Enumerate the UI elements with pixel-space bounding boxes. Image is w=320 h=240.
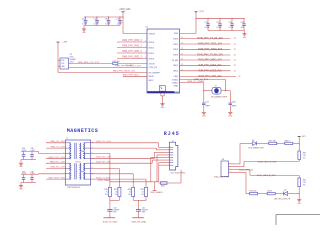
svg-text:RJH_PHY_LED1_3V3: RJH_PHY_LED1_3V3 xyxy=(199,65,223,67)
svg-text:RJ45_TX+_3V3: RJ45_TX+_3V3 xyxy=(96,141,112,143)
wire branch B segment xyxy=(258,193,268,195)
wire CT route xyxy=(91,178,146,180)
svg-text:LED GREEN LPR: LED GREEN LPR xyxy=(249,147,265,149)
svg-text:U2: U2 xyxy=(146,27,148,29)
wire TX secondary CT drop xyxy=(91,152,110,154)
ground (C38) xyxy=(229,108,231,113)
transformer T2 body xyxy=(65,140,90,185)
svg-text:MAGNETICS: MAGNETICS xyxy=(67,128,99,134)
wire RJ45 pin5 stub xyxy=(151,157,162,159)
svg-text:RMII_PHY_RXD_1: RMII_PHY_RXD_1 xyxy=(122,46,142,48)
svg-text:C31: C31 xyxy=(93,19,96,21)
svg-text:VDD: VDD xyxy=(174,33,179,35)
svg-text:XTAL2: XTAL2 xyxy=(172,78,179,81)
svg-text:+3V3_LAN: +3V3_LAN xyxy=(119,8,131,11)
svg-text:0.1UF: 0.1UF xyxy=(22,173,26,175)
wire branch B to ground xyxy=(288,193,300,195)
svg-text:RJH_PHY_LED2_3V3: RJH_PHY_LED2_3V3 xyxy=(199,71,223,73)
wire net RJ45_PHY_MDC_3V3 xyxy=(180,59,231,61)
svg-text:XTLIN: XTLIN xyxy=(149,63,155,65)
wire RX winding drop xyxy=(91,168,120,170)
wire RJ45 pin4 termination xyxy=(157,154,161,156)
wire center tap 2 to caps xyxy=(39,173,66,175)
svg-text:RMII_TX+_3V3: RMII_TX+_3V3 xyxy=(50,141,65,143)
wire RJ45_RX- route xyxy=(91,162,153,164)
ground (C37) xyxy=(203,108,205,113)
svg-text:D4: D4 xyxy=(284,190,286,192)
svg-text:RJ45: RJ45 xyxy=(164,131,180,137)
resistor R36 75 ohm xyxy=(108,187,111,196)
wire branch B segment xyxy=(275,193,283,195)
svg-text:FB2 600: FB2 600 xyxy=(113,61,120,63)
svg-text:R31 330: R31 330 xyxy=(269,140,276,142)
svg-text:LED2: LED2 xyxy=(173,71,179,73)
wire VDDIO feed from rail to U2 xyxy=(122,17,124,34)
resistor RBIAS box inside U2 xyxy=(159,86,165,92)
svg-text:R32 330: R32 330 xyxy=(250,191,257,193)
wire net RMII_TX+_3V3 xyxy=(46,142,65,144)
svg-text:C33: C33 xyxy=(116,19,119,21)
wire crystal right segment xyxy=(222,90,230,92)
svg-text:RMII_RX+_3V3: RMII_RX+_3V3 xyxy=(50,161,65,163)
svg-text:RJ45_PHY_TXD1_3V3: RJ45_PHY_TXD1_3V3 xyxy=(198,44,223,46)
wire XTAL2 to crystal xyxy=(180,79,226,81)
wire net RMII_RXCT_3V3 xyxy=(46,178,65,180)
resistor R38 75 ohm xyxy=(132,187,135,196)
title block frame corner xyxy=(276,214,320,216)
svg-text:RJ45_RX+_3V3: RJ45_RX+_3V3 xyxy=(96,157,112,159)
svg-text:C34: C34 xyxy=(22,148,25,150)
svg-text:C32: C32 xyxy=(105,19,108,21)
ground (cap bank 1) xyxy=(83,26,85,30)
shield resistor network xyxy=(159,182,182,184)
svg-text:RX_ER/RPT: RX_ER/RPT xyxy=(149,72,161,74)
svg-text:RJ45_PHY_TXD2_3V3: RJ45_PHY_TXD2_3V3 xyxy=(198,49,223,51)
svg-text:C37: C37 xyxy=(205,102,208,104)
LED pin stub 9 xyxy=(229,163,233,165)
svg-text:RXD2: RXD2 xyxy=(149,53,155,55)
capacitor C40 (TX term) xyxy=(109,200,111,207)
wire center tap 1 to caps xyxy=(39,152,66,154)
svg-text:J2B: J2B xyxy=(222,159,225,161)
svg-text:RJ45_LED_PINS: RJ45_LED_PINS xyxy=(214,177,229,179)
svg-text:C35: C35 xyxy=(30,148,33,150)
svg-text:RJ45_SHIELD: RJ45_SHIELD xyxy=(150,192,163,194)
svg-text:C24: C24 xyxy=(240,22,243,24)
U2 ground pins below xyxy=(160,93,162,96)
connector J2 pin stubs xyxy=(161,146,169,148)
svg-text:5%: 5% xyxy=(105,194,108,196)
svg-text:RMII_TXCT_3V3: RMII_TXCT_3V3 xyxy=(49,157,66,159)
LED pin stub 10 xyxy=(229,166,233,168)
wire R41 to branch B xyxy=(298,187,300,194)
svg-text:J2: J2 xyxy=(172,140,174,142)
wire net RJH_PHY_LED2_3V3 xyxy=(180,70,231,72)
resistor R35 270 (pullup) xyxy=(298,151,301,159)
ground (CT caps 2) xyxy=(20,183,22,186)
wire RJ45_TX+ route xyxy=(91,142,159,144)
svg-text:3V3: 3V3 xyxy=(302,136,305,138)
wire branch A to +3V3 rail xyxy=(293,142,299,144)
svg-text:RJ45_PHY_MDC_3V3: RJ45_PHY_MDC_3V3 xyxy=(198,60,222,62)
svg-text:5%: 5% xyxy=(303,185,306,187)
wire LED1 cathode route xyxy=(232,166,244,168)
svg-text:RJ45_PHY_nINT_3V3: RJ45_PHY_nINT_3V3 xyxy=(199,76,223,78)
wire branch A segment xyxy=(277,142,285,144)
IC U2 LAN8720A ethernet PHY body xyxy=(147,29,180,93)
wire LED2 anode route xyxy=(232,169,250,171)
wire shield flag drop xyxy=(154,182,156,191)
svg-text:C30: C30 xyxy=(82,19,85,21)
svg-text:MDIO: MDIO xyxy=(149,76,155,78)
svg-text:MDC: MDC xyxy=(149,80,154,82)
svg-text:0.1UF: 0.1UF xyxy=(30,150,34,152)
oscillator X2 box xyxy=(60,58,69,69)
wire bottom rail (CT caps 2) xyxy=(21,182,36,184)
capacitor C30 xyxy=(85,17,87,21)
capacitor C39 xyxy=(31,175,33,178)
ground (cap bank 2) xyxy=(244,31,246,34)
wire net RMII_PHY_RXD_2 xyxy=(117,52,147,54)
svg-text:5%: 5% xyxy=(141,194,144,196)
wire pair2 resistor bottoms xyxy=(132,197,134,201)
resistor R32 330 xyxy=(250,192,258,194)
svg-text:RJ45_PHY_TX_EN_3V3: RJ45_PHY_TX_EN_3V3 xyxy=(197,55,223,57)
svg-text:GND: GND xyxy=(174,85,179,87)
wire LED2 cathode route xyxy=(232,171,246,173)
resistor R33 0 ohm xyxy=(285,142,293,144)
svg-text:GCT RJ45 8P8C: GCT RJ45 8P8C xyxy=(170,173,186,175)
capacitor C36 xyxy=(23,175,25,178)
wire power stem 2 xyxy=(195,12,197,33)
wire net RJ45_PHY_TXD1_3V3 xyxy=(180,43,231,45)
wire net RMII_TX-_3V3 xyxy=(46,147,65,149)
svg-text:RMII_PHY_MDC: RMII_PHY_MDC xyxy=(123,75,140,77)
svg-text:RMII_PHY_RXD_2: RMII_PHY_RXD_2 xyxy=(122,51,142,53)
svg-text:OUT: OUT xyxy=(61,63,64,65)
wire net RMII_PHY_RXD_1 xyxy=(117,47,147,49)
wire rail to R35 xyxy=(298,143,300,151)
svg-text:TX_EN: TX_EN xyxy=(171,60,178,62)
svg-text:25.000MHZ 18PF: 25.000MHZ 18PF xyxy=(211,96,228,98)
wire termination bus xyxy=(110,181,159,183)
wire RJ45 pin7/8 termination xyxy=(159,162,162,164)
svg-text:C36: C36 xyxy=(22,171,25,173)
svg-text:Y2: Y2 xyxy=(215,85,217,87)
svg-text:C38: C38 xyxy=(232,102,235,104)
wire crystal left segment xyxy=(204,90,211,92)
svg-text:TXD3: TXD3 xyxy=(173,55,179,57)
wire net RMII_PHY_RXD_0 xyxy=(117,41,147,43)
transformer windings (lower channel) xyxy=(70,163,71,171)
wire net RMII_PHY_RXD_3 xyxy=(117,58,147,60)
resistor R37 75 ohm xyxy=(118,187,121,196)
capacitor C23 xyxy=(231,19,233,24)
svg-text:VDDIO: VDDIO xyxy=(149,33,156,35)
transformer windings (upper channel) xyxy=(70,143,71,151)
resistor R41 270 xyxy=(298,178,301,187)
svg-text:RJ45_PHY_TX_D0_3V3: RJ45_PHY_TX_D0_3V3 xyxy=(197,38,223,40)
U2 part number band xyxy=(147,91,174,93)
wire bottom rail of cap bank 1 xyxy=(84,25,120,27)
wire oscillator output to ferrite bead xyxy=(69,63,113,65)
svg-text:+1V2: +1V2 xyxy=(199,11,205,13)
wire net RJ45_PHY_TXD2_3V3 xyxy=(180,48,231,50)
svg-text:R33 0: R33 0 xyxy=(285,140,290,142)
svg-text:C22: C22 xyxy=(216,22,219,24)
svg-text:RXD0: RXD0 xyxy=(149,42,155,44)
connector J2B LED pins box xyxy=(221,161,229,177)
capacitor C24 xyxy=(243,19,245,24)
wire shield to connector xyxy=(180,170,182,183)
svg-text:TXD2: TXD2 xyxy=(173,49,179,51)
LED pin stub 12 xyxy=(229,171,233,173)
wire bottom rail of cap bank 2 xyxy=(208,30,245,32)
wire VDD pin to cap bank 2 xyxy=(180,32,196,34)
wire RJ45_TX- route xyxy=(91,147,157,149)
svg-text:XTAL1: XTAL1 xyxy=(172,81,179,84)
svg-text:5%: 5% xyxy=(128,194,131,196)
svg-text:C23: C23 xyxy=(228,22,231,24)
wire net RJ45_PHY_nINT xyxy=(180,75,236,77)
wire power stem to rail xyxy=(122,12,124,17)
capacitor C37 (crystal left) xyxy=(203,91,205,101)
capacitor C38 (crystal right) xyxy=(229,91,231,101)
svg-text:RMII_RXCT_3V3: RMII_RXCT_3V3 xyxy=(48,177,65,179)
wire net RMII_CRS_DV xyxy=(69,66,148,68)
wire net RMII_RX-_3V3 xyxy=(46,168,65,170)
svg-text:0.1UF: 0.1UF xyxy=(22,150,26,152)
svg-text:RXD3: RXD3 xyxy=(149,58,155,60)
svg-text:TXD1: TXD1 xyxy=(173,44,179,46)
wire LED2_A to R41 xyxy=(298,175,300,178)
svg-text:C21: C21 xyxy=(204,22,207,24)
capacitor C31 xyxy=(96,17,98,21)
power flag +3V3_LAN (LED) xyxy=(297,136,301,137)
svg-text:LED1: LED1 xyxy=(173,65,179,67)
svg-text:CRS_DV: CRS_DV xyxy=(149,67,158,69)
svg-text:RMII_PHY_CRS_DV_3V3: RMII_PHY_CRS_DV_3V3 xyxy=(115,66,141,68)
LED pin stub 11 xyxy=(229,169,233,171)
svg-text:RJ45_LED1_K_3V3: RJ45_LED1_K_3V3 xyxy=(258,161,277,163)
wire LED1 anode route xyxy=(232,163,240,165)
svg-text:RJ45_LED2_A_3V3: RJ45_LED2_A_3V3 xyxy=(257,174,276,177)
svg-text:C39: C39 xyxy=(30,171,33,173)
svg-text:R40 0: R40 0 xyxy=(161,186,165,188)
power flag +3V3_LAN (oscillator) xyxy=(56,42,60,43)
svg-text:RXD1: RXD1 xyxy=(149,47,155,49)
svg-text:LED YELLOW LPR: LED YELLOW LPR xyxy=(274,198,291,200)
svg-text:TXD0: TXD0 xyxy=(173,38,179,40)
capacitor C34 xyxy=(23,151,25,154)
resistor R31 330 xyxy=(269,142,277,144)
ground (CT caps 1) xyxy=(20,160,22,164)
svg-text:GST5009M LF: GST5009M LF xyxy=(67,187,81,189)
svg-text:RJ45_TX_GND: RJ45_TX_GND xyxy=(103,222,118,224)
wire RX secondary CT drop xyxy=(91,173,134,175)
connector J2 RJ45 body xyxy=(170,142,178,170)
resistor R34 0 ohm xyxy=(267,192,275,194)
wire oscillator power stem xyxy=(57,42,59,72)
svg-text:RMII_RX-_3V3: RMII_RX-_3V3 xyxy=(51,167,66,169)
svg-text:nINT: nINT xyxy=(174,76,179,78)
wire net RJ45_PHY_TX_EN_3V3 xyxy=(180,54,231,56)
wire R35 to LED1_K xyxy=(298,159,300,161)
wire pair1 resistor bottoms xyxy=(109,197,111,201)
svg-text:5%: 5% xyxy=(303,158,306,160)
svg-text:RJ45_RX_GND: RJ45_RX_GND xyxy=(131,222,146,224)
capacitor C32 xyxy=(108,17,110,21)
ferrite bead FB2 xyxy=(113,62,118,64)
wire bottom rail (CT caps 1) xyxy=(21,159,36,161)
wire top rail of cap bank 1 xyxy=(84,16,123,18)
svg-text:1CT:1CT: 1CT:1CT xyxy=(75,161,81,163)
svg-text:T2: T2 xyxy=(66,138,68,140)
svg-text:RMII_TX-_3V3: RMII_TX-_3V3 xyxy=(51,146,66,148)
wire branch A segment xyxy=(249,142,253,144)
power flag +1V2_LAN (cap bank 2) xyxy=(194,11,198,12)
crystal Y2 xyxy=(212,87,221,94)
capacitor C22 xyxy=(219,19,221,24)
wire net RMII_RX_ER (from oscillator power rail) xyxy=(58,72,147,74)
resistor R39 75 ohm xyxy=(145,187,148,196)
capacitor C33 xyxy=(119,17,121,21)
wire net RJ45_PHY_TX_D0_3V3 xyxy=(180,38,231,40)
wire bead to U2 xyxy=(118,63,147,65)
svg-text:RMII_PHY_RXD_0: RMII_PHY_RXD_0 xyxy=(122,40,142,42)
svg-text:RJ45_TERM: RJ45_TERM xyxy=(98,180,110,182)
wire RJ45_RX+ route xyxy=(91,158,155,160)
svg-text:R34 0: R34 0 xyxy=(267,191,272,193)
wire top rail of cap bank 2 xyxy=(196,18,245,20)
wire net RMII_RX+_3V3 xyxy=(46,162,65,164)
wire net RJH_PHY_LED1_3V3 xyxy=(180,64,231,66)
transformer pin stubs xyxy=(65,142,71,144)
svg-text:5%: 5% xyxy=(115,194,118,196)
ground (LED branch) xyxy=(297,199,301,201)
capacitor C35 xyxy=(31,151,33,154)
capacitor C21 xyxy=(207,19,209,24)
svg-text:RMII_PHY_MDIO_3V3: RMII_PHY_MDIO_3V3 xyxy=(113,71,136,73)
capacitor C41 (RX term) xyxy=(138,200,140,207)
svg-text:0.1UF: 0.1UF xyxy=(30,173,34,175)
wire net RMII_TXCT_3V3 xyxy=(46,158,65,160)
GND flag RJ45_RX_GND xyxy=(138,214,140,218)
wire net MDC xyxy=(123,75,147,77)
svg-text:RMII_PHY_RXD_3: RMII_PHY_RXD_3 xyxy=(122,57,142,59)
svg-text:RJ45_LED2_A: RJ45_LED2_A xyxy=(239,168,253,171)
GND flag RJ45_TX_GND xyxy=(109,214,111,218)
